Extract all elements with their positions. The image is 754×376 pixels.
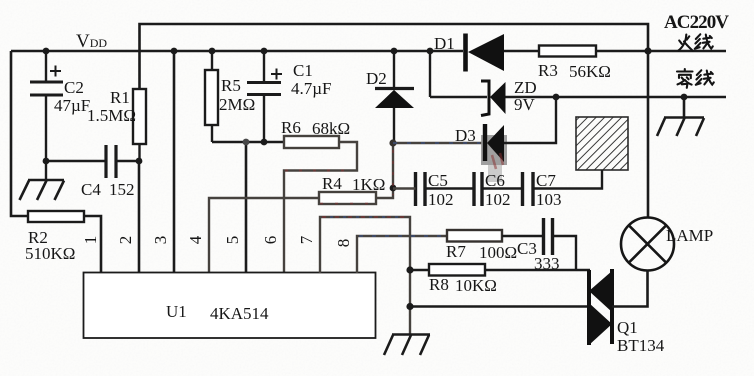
svg-text:102: 102 bbox=[428, 190, 454, 209]
diode D2 bbox=[366, 51, 414, 143]
svg-text:510KΩ: 510KΩ bbox=[25, 244, 75, 263]
wire: lamp branch bbox=[647, 51, 650, 218]
svg-text:D2: D2 bbox=[366, 69, 387, 88]
svg-text:10KΩ: 10KΩ bbox=[455, 276, 497, 295]
wire: VDD rail bbox=[11, 50, 430, 53]
capacitor C2 (electrolytic 47uF) bbox=[30, 51, 90, 180]
wire: D1 bridge vertical bbox=[429, 51, 431, 97]
ground (pin 7 rail) bbox=[384, 335, 430, 356]
svg-text:BT134: BT134 bbox=[617, 336, 665, 355]
svg-text:47µF: 47µF bbox=[54, 96, 90, 115]
svg-text:56KΩ: 56KΩ bbox=[569, 62, 611, 81]
svg-text:102: 102 bbox=[485, 190, 511, 209]
svg-text:4: 4 bbox=[186, 235, 205, 244]
resistor R1 1.5M bbox=[87, 88, 146, 161]
junction C5 row bbox=[390, 185, 397, 192]
svg-text:D1: D1 bbox=[434, 34, 455, 53]
svg-text:C1: C1 bbox=[293, 61, 313, 80]
svg-text:5: 5 bbox=[223, 236, 242, 245]
wire: R6 to pin 6 bbox=[284, 142, 357, 273]
wire: D3 to ZD node bbox=[504, 97, 556, 143]
wire: live line to terminal bbox=[648, 50, 726, 53]
wire: pin 7 to ground rail bbox=[320, 217, 410, 334]
wire: R2 to pin 1 bbox=[84, 216, 101, 273]
wire: D2 node to D3 bbox=[393, 142, 482, 144]
label 火线 (live) drawn strokes bbox=[679, 34, 713, 50]
wire: MT1 line to triac bbox=[410, 305, 589, 307]
resistor R8 10K bbox=[410, 264, 497, 295]
svg-text:C5: C5 bbox=[428, 171, 448, 190]
wire: pin 2 bbox=[138, 161, 141, 273]
junction C2/VDD bbox=[43, 48, 50, 55]
wire: left border down to R2 bbox=[11, 51, 28, 216]
svg-text:100Ω: 100Ω bbox=[479, 243, 517, 262]
svg-text:C6: C6 bbox=[485, 171, 505, 190]
wire: R4 right to D2/D3 node bbox=[376, 143, 393, 198]
wire: pin 4 to R4 bbox=[209, 198, 319, 273]
resistor R7 100 bbox=[446, 230, 542, 262]
capacitor C3 333 bbox=[517, 218, 576, 273]
junction C2/C4 bbox=[43, 158, 50, 165]
svg-text:AC220V: AC220V bbox=[664, 12, 729, 33]
svg-text:103: 103 bbox=[536, 190, 562, 209]
wire: lamp to triac MT2 bbox=[612, 271, 648, 307]
svg-text:R3: R3 bbox=[538, 61, 558, 80]
svg-text:R6: R6 bbox=[281, 118, 301, 137]
resistor R6 68k bbox=[281, 118, 350, 148]
pin number labels bbox=[81, 235, 353, 247]
svg-text:R1: R1 bbox=[110, 88, 130, 107]
ground (neutral) bbox=[657, 97, 704, 136]
junction R8 / pin7 rail bbox=[406, 266, 413, 273]
svg-text:6: 6 bbox=[261, 236, 280, 245]
ground (below C2) bbox=[20, 180, 65, 200]
svg-text:1KΩ: 1KΩ bbox=[352, 175, 385, 194]
svg-text:1: 1 bbox=[81, 236, 100, 245]
svg-text:8: 8 bbox=[334, 239, 353, 248]
svg-text:R4: R4 bbox=[322, 174, 342, 193]
junction live node bbox=[644, 47, 651, 54]
touch plate (hatched electrode) bbox=[533, 117, 628, 189]
capacitor C1 4.7uF bbox=[247, 51, 332, 142]
resistor R3 56K bbox=[538, 46, 648, 82]
junction C4 / pin2 line bbox=[136, 158, 143, 165]
capacitor C7 103 bbox=[482, 171, 562, 209]
diode D1 bbox=[430, 34, 539, 72]
junction MT line bbox=[406, 303, 413, 310]
svg-text:3: 3 bbox=[151, 236, 170, 245]
svg-text:7: 7 bbox=[297, 235, 316, 244]
zener ZD 9V bbox=[430, 78, 537, 116]
svg-text:C7: C7 bbox=[536, 171, 556, 190]
capacitor C6 102 bbox=[425, 171, 511, 209]
IC U1 4KA514 bbox=[84, 273, 376, 339]
svg-text:1.5MΩ: 1.5MΩ bbox=[87, 106, 136, 125]
svg-text:C4: C4 bbox=[81, 180, 101, 199]
lamp bbox=[621, 218, 674, 271]
wire: gate line R8 to triac bbox=[485, 269, 590, 271]
svg-text:152: 152 bbox=[109, 180, 135, 199]
wire: C2 node to C4 bbox=[46, 160, 105, 162]
label 零线 (neutral) drawn strokes bbox=[677, 69, 714, 88]
svg-text:R5: R5 bbox=[221, 76, 241, 95]
svg-text:2MΩ: 2MΩ bbox=[219, 95, 255, 114]
svg-text:U1: U1 bbox=[166, 302, 187, 321]
resistor R4 1K bbox=[319, 174, 385, 204]
svg-text:LAMP: LAMP bbox=[666, 226, 713, 245]
svg-text:Q1: Q1 bbox=[617, 318, 638, 337]
svg-text:68kΩ: 68kΩ bbox=[312, 119, 350, 138]
wire: pin 3 (VDD) bbox=[173, 51, 176, 273]
resistor R2 bbox=[25, 211, 84, 263]
svg-text:4.7µF: 4.7µF bbox=[291, 79, 332, 98]
svg-text:R7: R7 bbox=[446, 242, 466, 261]
svg-text:C2: C2 bbox=[64, 78, 84, 97]
scan artifact colored dashes bbox=[285, 143, 503, 236]
capacitor C5 102 bbox=[393, 171, 454, 209]
gray scan smudge at D3 bbox=[481, 135, 507, 165]
svg-text:4KA514: 4KA514 bbox=[210, 304, 269, 323]
svg-text:R8: R8 bbox=[429, 275, 449, 294]
resistor R5 2M bbox=[205, 51, 255, 142]
triac Q1 BT134 bbox=[589, 269, 665, 355]
junction D2/D3 node bbox=[389, 139, 396, 146]
diode D3 bbox=[455, 124, 504, 162]
wire: R5/C1 node row to R6, pin 5 bbox=[212, 141, 284, 143]
wire: neutral line bbox=[506, 96, 727, 99]
wire: pin 8 to R7 bbox=[357, 236, 447, 273]
svg-text:2: 2 bbox=[116, 236, 135, 245]
capacitor C4 152 bbox=[81, 145, 139, 199]
wire: top line (R1 top to live junction) bbox=[140, 24, 649, 89]
